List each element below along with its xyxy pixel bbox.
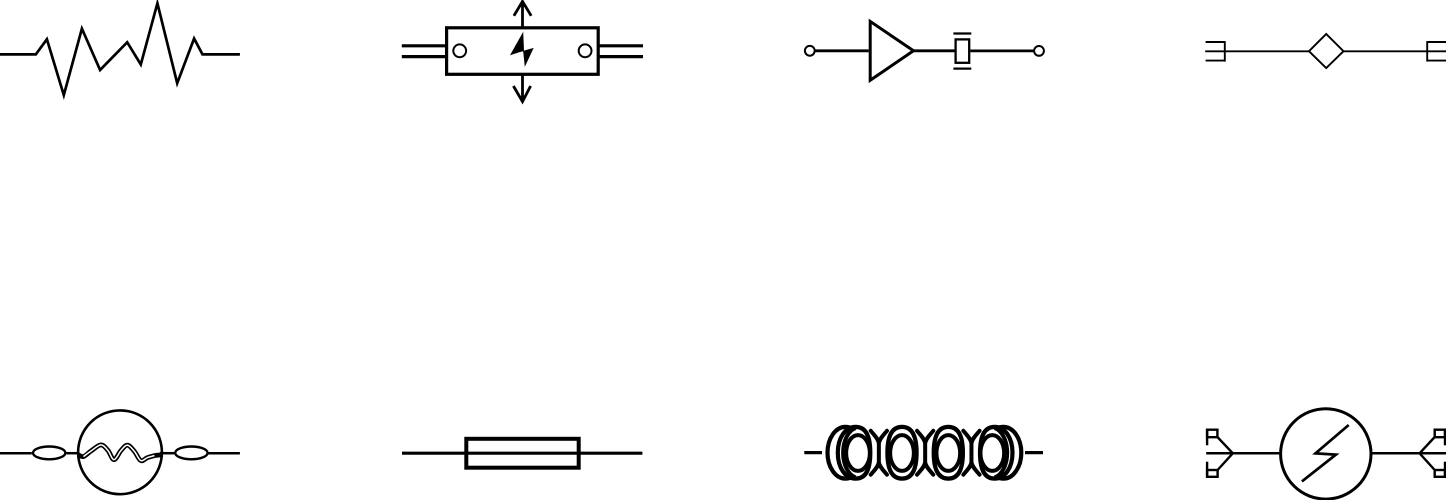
fuse body [466,439,578,468]
surge protector box [447,28,599,75]
wire [208,452,240,455]
coil turn 1 left edge thickening [843,428,856,478]
wire (coil left stub) [804,451,822,454]
terminal circle right [579,44,592,57]
wire (main through line) [1205,50,1309,52]
terminal circle left [453,44,466,57]
coil back turn left [828,427,864,479]
wire [1344,50,1446,52]
generator circle [1281,409,1371,499]
wire [0,452,32,455]
coil turn 2 [887,427,916,479]
terminal circle (output) [1034,46,1044,56]
connector flag top-right [1420,430,1445,454]
wire [970,50,1034,53]
wire (generator right lead) [1372,452,1446,455]
wire (coil right stub) [1025,451,1043,454]
insulator ellipse right [175,447,207,460]
wire (generator left lead) [1206,452,1279,455]
wire [67,452,81,455]
arrow down [513,74,530,101]
coil junction links [871,431,980,475]
flow diamond [1309,34,1344,68]
connector flag top-left [1207,430,1233,454]
resistor (jagged noise suppressor) [0,3,240,95]
coil turn 4 [980,427,1013,479]
crystal body [956,39,970,62]
connector flag bottom-left [1207,453,1233,477]
connector bracket right [1427,41,1446,62]
lightning bolt inside box [510,32,534,67]
wire (left double pair of surge protector) [402,46,447,57]
connector flag bottom-right [1420,453,1445,477]
wire (right double pair of surge protector) [598,46,643,57]
terminal circle (amp input) [805,46,815,56]
lamp circle [78,410,162,494]
wire (fuse lead) [402,452,642,455]
connector bracket left [1206,41,1225,62]
amplifier triangle [870,21,913,80]
coil turn 4 right edge thickening [995,428,1008,478]
crystal plate bottom [953,67,971,69]
wire [160,452,175,455]
coil turn 3 [934,427,963,479]
filament wavy line [79,445,163,461]
wire [814,49,868,52]
arrow up [514,1,531,28]
wire [914,49,955,52]
insulator ellipse left [33,447,65,460]
flash symbol [1302,425,1349,481]
filament wavy line white core [84,445,155,461]
crystal plate top [953,32,971,34]
coil back turn right [986,427,1022,479]
coil turn 1 [838,427,871,479]
